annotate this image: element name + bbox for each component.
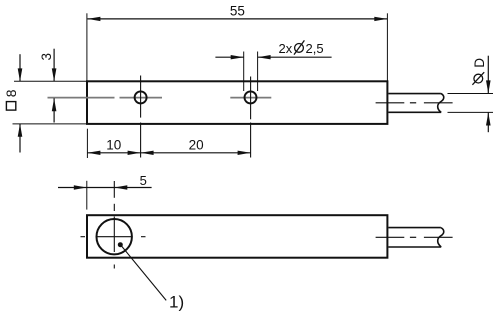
svg-text:5: 5 xyxy=(140,173,147,188)
svg-text:2x: 2x xyxy=(279,41,293,56)
svg-text:20: 20 xyxy=(189,137,204,152)
svg-text:10: 10 xyxy=(106,137,121,152)
svg-text:D: D xyxy=(472,58,487,68)
svg-text:3: 3 xyxy=(39,53,54,61)
svg-text:2,5: 2,5 xyxy=(306,41,324,56)
svg-text:55: 55 xyxy=(230,4,245,19)
svg-text:1): 1) xyxy=(169,292,184,311)
svg-text:8: 8 xyxy=(3,89,19,97)
